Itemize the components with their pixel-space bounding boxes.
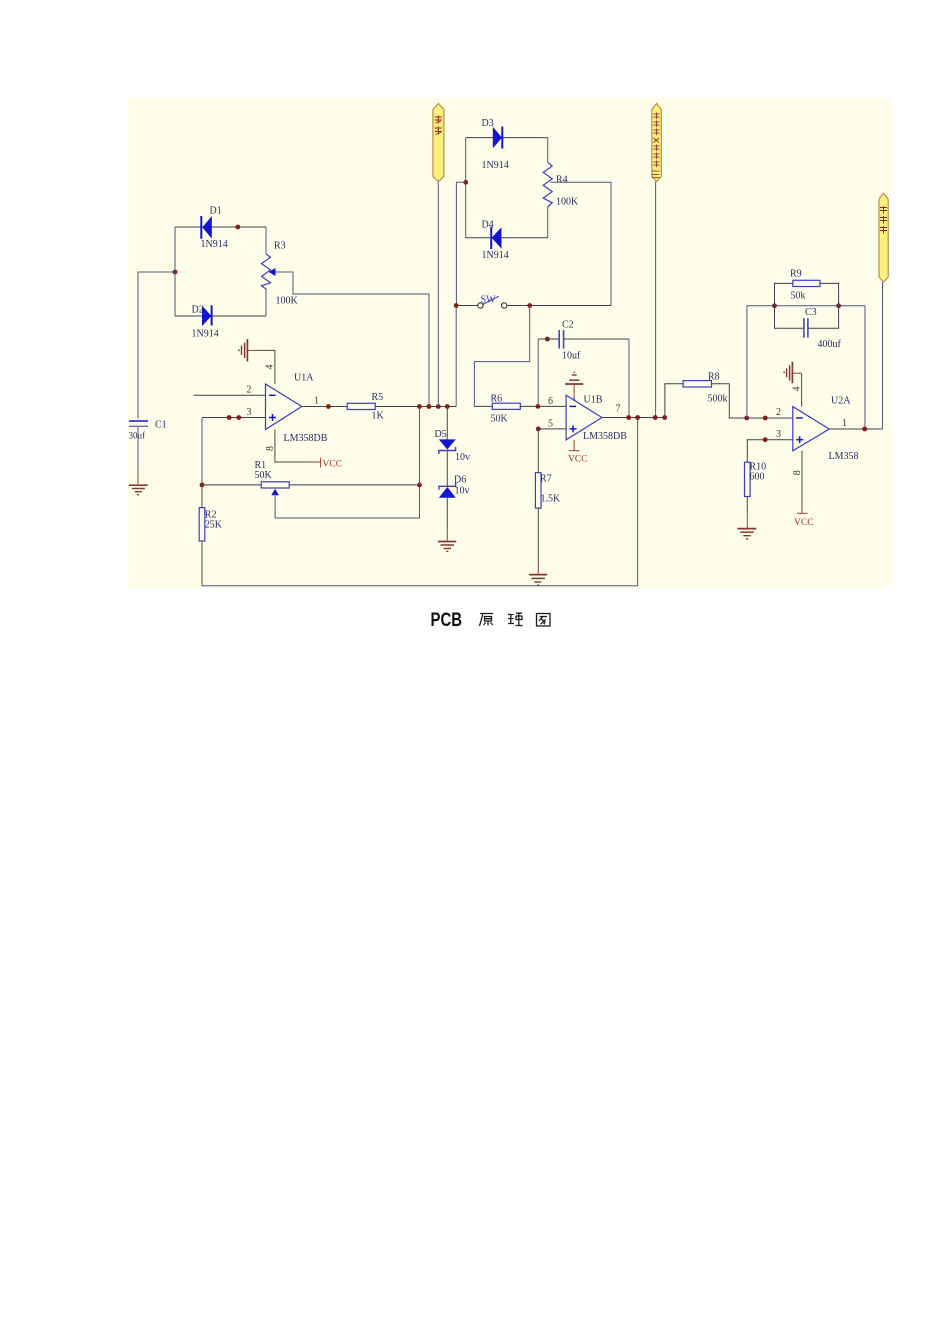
svg-text:LM358: LM358: [829, 451, 859, 462]
net flag 三角波/锯齿波: [652, 103, 662, 181]
wire pin3 down to R1 row: [201, 418, 203, 485]
svg-text:C3: C3: [805, 307, 817, 318]
wire C2 left vertical to pin6: [537, 339, 539, 406]
resistor R6 50K: [491, 394, 521, 425]
svg-text:10v: 10v: [455, 452, 470, 463]
svg-text:2: 2: [776, 407, 781, 418]
svg-text:8: 8: [265, 446, 276, 451]
svg-text:50K: 50K: [255, 470, 273, 481]
wire SW right to R4 tap vertical: [530, 305, 611, 307]
node pin2 row a: [744, 416, 749, 421]
wire 方波 flag down to output row: [437, 182, 439, 407]
VCC terminal U1A: [312, 458, 342, 470]
node output row a: [417, 404, 422, 409]
resistor R10 600: [745, 462, 767, 497]
svg-text:1N914: 1N914: [192, 329, 219, 340]
resistor R5 1K: [347, 392, 384, 422]
svg-text:8: 8: [792, 470, 803, 475]
svg-text:U1A: U1A: [294, 373, 314, 384]
ground above U1B (inverted): [565, 372, 583, 384]
svg-text:1K: 1K: [372, 411, 385, 422]
wire SW node down and left to R6: [474, 306, 529, 407]
node output row c: [436, 404, 441, 409]
svg-text:SW: SW: [481, 295, 497, 306]
node SW right: [527, 303, 532, 308]
VCC terminal U2A: [794, 505, 814, 528]
node pin5: [536, 427, 541, 432]
node pin2 row b: [763, 416, 768, 421]
wire branch to SW: [456, 182, 465, 305]
svg-text:7: 7: [616, 404, 621, 415]
svg-text:100K: 100K: [276, 296, 299, 307]
wire U1B pin5: [538, 428, 566, 430]
ground below D6: [438, 542, 456, 552]
wire R9 branch: [775, 283, 793, 305]
wire R1 wiper feedback loop: [275, 485, 419, 518]
wire D3/D4 loop left vertical: [465, 138, 467, 238]
node R9C3 left: [772, 303, 777, 308]
svg-text:400uf: 400uf: [818, 339, 842, 350]
resistor R7 1.5K: [535, 473, 561, 508]
svg-text:30uf: 30uf: [129, 431, 146, 441]
op-amp U1A LM358DB: [266, 373, 328, 445]
resistor R9 50k: [790, 269, 820, 302]
svg-text:D6: D6: [454, 475, 466, 486]
capacitor C2 10uf: [538, 320, 629, 362]
svg-text:PCB: PCB: [431, 609, 463, 631]
wire R3 wiper to vertical (down to U1A output row): [276, 272, 430, 407]
schematic sheet background: [128, 98, 891, 589]
wire R2 to bottom rail: [201, 541, 203, 586]
wire mid row right down to pin1: [864, 306, 866, 429]
svg-text:3: 3: [247, 407, 252, 418]
zener D6 10v: [439, 475, 470, 498]
node R1 row left: [200, 483, 205, 488]
wire bottom rail: [202, 585, 638, 587]
wire R9/C3 left vertical down to pin2 row: [746, 306, 748, 418]
svg-text:3: 3: [776, 429, 781, 440]
node pin7 row b: [635, 415, 640, 420]
svg-text:500k: 500k: [708, 394, 728, 405]
wire R9 right: [820, 283, 839, 305]
svg-text:10uf: 10uf: [562, 351, 581, 362]
wire U1A pin3 input: [202, 417, 266, 419]
wire U1A pin2 input stub: [194, 394, 266, 396]
wire R9/C3 mid row: [747, 305, 865, 307]
op-amp U1B LM358DB: [566, 395, 627, 443]
wire D1 row: [175, 226, 266, 228]
svg-text:2: 2: [247, 385, 252, 396]
svg-text:R5: R5: [372, 392, 384, 403]
svg-text:4: 4: [265, 365, 276, 370]
svg-text:R4: R4: [556, 175, 568, 186]
ground at U1A pin4 (rotated): [239, 339, 248, 361]
resistor R4 100K (zigzag): [543, 138, 579, 238]
ground below C1: [129, 485, 148, 495]
node on pin3 wire 2: [236, 415, 241, 420]
node pin7 row c: [653, 415, 658, 420]
wire R6 to U1B pin6: [520, 405, 566, 407]
wire pin4 to ground: [247, 350, 275, 384]
diode D1 1N914: [201, 206, 228, 251]
svg-text:D1: D1: [210, 206, 222, 217]
svg-text:5: 5: [548, 419, 553, 430]
svg-text:R8: R8: [708, 372, 720, 383]
wire pin3 node down to R2: [201, 485, 203, 508]
wire U2A pin4: [792, 373, 801, 406]
wire D3 row: [466, 137, 548, 139]
wire pin1 up to 正弦波 flag: [882, 282, 884, 429]
svg-text:R6: R6: [491, 394, 503, 405]
switch SW: [459, 295, 530, 309]
wire pin5 down to R7: [537, 429, 539, 473]
node R9C3 right: [836, 303, 841, 308]
ground below R7: [529, 575, 547, 586]
resistor R1 50K (pot): [255, 460, 290, 495]
ground at U2A pin4 (rotated): [784, 362, 792, 384]
svg-text:R9: R9: [790, 269, 802, 280]
wire U1B output pin7: [602, 417, 665, 419]
net flag 方波: [433, 103, 444, 181]
node on D1 row: [235, 225, 240, 230]
wire loop right vertical (to R3): [265, 227, 267, 316]
node pin3: [763, 437, 768, 442]
node at pin1: [326, 404, 331, 409]
capacitor C1: [129, 272, 167, 484]
svg-text:1: 1: [314, 396, 319, 407]
node C2 left: [545, 337, 550, 342]
node pin1: [862, 427, 867, 432]
node SW left: [454, 303, 459, 308]
wire output row up to SW: [455, 306, 457, 407]
node on pin3 wire: [227, 415, 232, 420]
VCC terminal U1B: [568, 440, 588, 465]
svg-text:LM358DB: LM358DB: [284, 433, 328, 444]
svg-text:6: 6: [548, 396, 553, 407]
title PCB 原理图: [431, 609, 551, 631]
diode D4 1N914: [482, 220, 509, 262]
node output row d: [445, 404, 450, 409]
wire U1A output pin1: [302, 406, 347, 408]
wire R8 right down to U2A pin2: [712, 384, 793, 418]
node pin7 row d: [662, 415, 667, 420]
wire U1A pin8 to VCC: [275, 430, 312, 463]
svg-text:50k: 50k: [791, 291, 806, 302]
svg-text:1.5K: 1.5K: [541, 494, 562, 505]
svg-text:D3: D3: [482, 118, 494, 129]
node pin6: [536, 404, 541, 409]
svg-text:VCC: VCC: [568, 455, 588, 465]
node pin7 row a: [626, 415, 631, 420]
node D3 loop left branch: [463, 180, 468, 185]
svg-text:R7: R7: [540, 474, 552, 485]
svg-text:LM358DB: LM358DB: [583, 431, 627, 442]
wire U1B ground stub: [573, 385, 575, 401]
wire R4 tap down to SW row: [551, 182, 612, 305]
wire output row down to R1 row: [419, 407, 421, 485]
diode D2 1N914: [192, 305, 219, 340]
wire D6 to ground: [446, 498, 448, 541]
resistor R8 500k: [683, 372, 727, 405]
op-amp U2A LM358: [793, 396, 859, 463]
wire U2A output pin1: [829, 428, 882, 430]
wire C1 to D1/D2 loop: [138, 271, 175, 273]
svg-text:VCC: VCC: [794, 518, 814, 528]
svg-text:1: 1: [842, 418, 847, 429]
wire U2A pin8 to VCC: [801, 451, 803, 505]
svg-text:600: 600: [750, 472, 765, 483]
wire R10 to ground: [746, 497, 748, 529]
node R1 row right: [417, 483, 422, 488]
svg-text:U1B: U1B: [584, 395, 603, 406]
svg-text:D2: D2: [192, 305, 204, 316]
node at loop left: [173, 270, 178, 275]
svg-text:1N914: 1N914: [482, 250, 509, 261]
wire C2 right down to U1B output row: [628, 339, 630, 418]
wire R7 to ground: [537, 508, 539, 574]
wire C3 branch right: [808, 306, 839, 328]
diode D3 1N914: [482, 118, 509, 171]
svg-text:C1: C1: [155, 420, 167, 431]
svg-text:100K: 100K: [556, 197, 579, 208]
svg-text:10v: 10v: [455, 486, 470, 497]
wire U2A pin3 row: [747, 440, 793, 463]
svg-text:25K: 25K: [205, 520, 223, 531]
svg-text:1N914: 1N914: [201, 239, 228, 250]
svg-text:R3: R3: [274, 241, 286, 252]
svg-text:1N914: 1N914: [482, 160, 509, 171]
svg-text:D4: D4: [482, 220, 494, 231]
resistor R3 100K (pot with wiper arrow): [262, 241, 299, 307]
wire D1/D2 loop left vertical: [174, 227, 176, 316]
wire C3 branch left: [775, 306, 804, 328]
wire D5 to D6: [446, 451, 448, 487]
node output row b: [427, 404, 432, 409]
capacitor C3 400uf: [804, 307, 842, 350]
wire D4 row: [466, 237, 548, 239]
svg-text:VCC: VCC: [323, 460, 343, 470]
svg-text:4: 4: [792, 387, 803, 392]
wire R5 to corner (output row): [375, 406, 456, 408]
wire R6 row left: [474, 405, 492, 407]
wire bottom rail up to U1B output row: [637, 418, 639, 586]
net flag 正弦波: [879, 193, 888, 282]
ground below R10: [738, 529, 757, 539]
wire pin7 row up to R8: [665, 384, 683, 418]
wire 三角波 flag down to U1B output row: [655, 182, 657, 418]
svg-text:50K: 50K: [491, 414, 509, 425]
svg-text:D5: D5: [435, 429, 447, 440]
zener D5 10v: [435, 407, 471, 464]
wire D2 row: [175, 315, 266, 317]
resistor R2 25K: [199, 508, 223, 541]
svg-text:U2A: U2A: [831, 396, 851, 407]
svg-text:C2: C2: [562, 320, 574, 331]
wire R1 row: [202, 484, 420, 486]
